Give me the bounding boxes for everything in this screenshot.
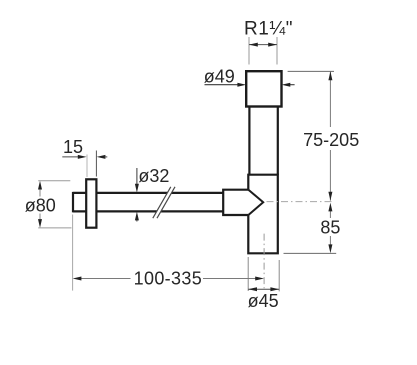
dia 45 arrow right bbox=[270, 287, 279, 291]
vertical outlet pipe bbox=[249, 107, 277, 175]
wall flange bbox=[86, 179, 96, 227]
75-205 top extension line bbox=[288, 70, 334, 72]
R1 1/4 extension lines bbox=[249, 37, 277, 65]
dia 49 leader left bbox=[205, 83, 247, 87]
dia 32 lower arrow bbox=[135, 212, 139, 222]
dia 32 upper arrow bbox=[135, 168, 139, 193]
85 arrow down bbox=[328, 244, 332, 253]
top nut bbox=[246, 71, 281, 106]
dia 80 dimension line bbox=[39, 188, 41, 220]
15 arrow right bbox=[97, 155, 108, 159]
dia 49 leader right bbox=[282, 83, 295, 87]
trap body bbox=[248, 175, 277, 254]
75-205 arrow up bbox=[328, 71, 332, 80]
15 arrow left with leader bbox=[62, 155, 86, 159]
dia 80 arrow down bbox=[38, 219, 42, 228]
svg-text:ø49: ø49 bbox=[204, 67, 235, 87]
85 dimension line bbox=[329, 210, 331, 245]
15 extension lines bbox=[86, 155, 88, 178]
100-335 extension line bbox=[72, 215, 74, 291]
100-335 dimension line bbox=[80, 278, 256, 280]
dia 80 arrow up bbox=[38, 181, 42, 190]
100-335 arrow left bbox=[73, 277, 82, 281]
svg-text:R1¼": R1¼" bbox=[244, 19, 293, 40]
R1 1/4 arrow left bbox=[249, 43, 258, 47]
svg-text:75-205: 75-205 bbox=[303, 130, 359, 150]
internal cone (chevron) bbox=[248, 190, 263, 215]
svg-text:ø80: ø80 bbox=[25, 195, 56, 215]
horizontal inlet pipe (wall pipe) bbox=[73, 192, 223, 213]
dia 45 arrow left bbox=[248, 287, 257, 291]
svg-text:ø45: ø45 bbox=[248, 291, 279, 311]
85 bottom extension line bbox=[284, 252, 337, 254]
85 arrow up bbox=[328, 203, 332, 212]
trap horizontal centerline bbox=[267, 201, 334, 203]
R1 1/4 dimension line bbox=[249, 44, 277, 46]
pipe break symbol bbox=[153, 187, 175, 218]
100-335 arrow right bbox=[255, 277, 264, 281]
svg-text:100-335: 100-335 bbox=[134, 269, 203, 289]
75-205 arrow down bbox=[328, 192, 332, 201]
trap vertical centerline bbox=[263, 234, 265, 289]
trap inlet nut bbox=[223, 190, 248, 215]
75-205 dimension line bbox=[329, 71, 331, 200]
dia 45 dimension line bbox=[248, 288, 279, 290]
dia 45 extension lines bbox=[248, 257, 279, 291]
dia 80 extension lines bbox=[38, 181, 71, 228]
svg-text:85: 85 bbox=[320, 217, 340, 237]
R1 1/4 arrow right bbox=[268, 43, 277, 47]
svg-text:15: 15 bbox=[63, 137, 83, 157]
svg-text:ø32: ø32 bbox=[138, 166, 169, 186]
